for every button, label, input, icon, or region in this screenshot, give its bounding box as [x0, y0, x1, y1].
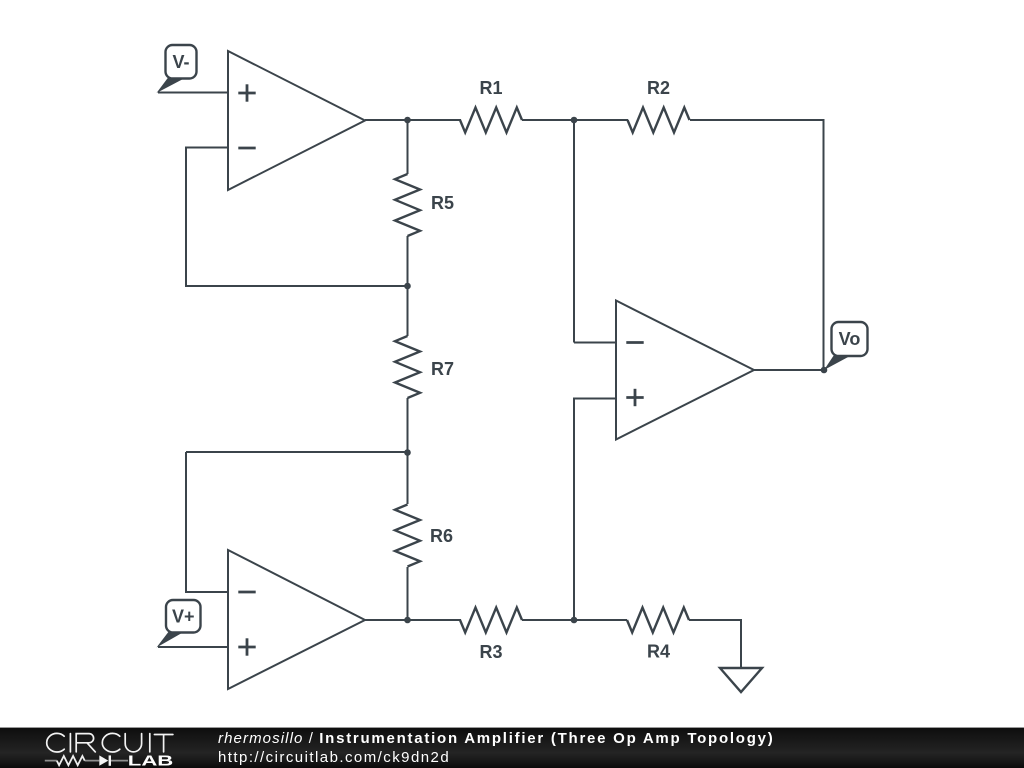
wire	[823, 119, 825, 370]
resistor R4	[627, 608, 689, 662]
svg-text:V-: V-	[172, 52, 189, 72]
op-amp OA2	[228, 550, 365, 689]
wire	[690, 119, 824, 121]
resistor R3	[460, 608, 522, 663]
wire	[186, 591, 228, 593]
node OA2 out	[404, 617, 411, 624]
node OA1 out	[404, 117, 411, 124]
wire	[754, 369, 824, 371]
node R3-R4	[571, 617, 578, 624]
wire	[185, 285, 408, 287]
wire	[574, 398, 616, 400]
svg-text:R2: R2	[647, 78, 670, 98]
wire	[574, 342, 616, 344]
wire	[522, 119, 575, 121]
wire	[574, 619, 627, 621]
svg-text:LAB: LAB	[128, 754, 174, 768]
resistor R2	[628, 78, 690, 133]
wire	[365, 619, 461, 621]
wire	[573, 398, 575, 622]
wire	[407, 398, 409, 454]
wire	[573, 119, 575, 343]
wire	[407, 285, 409, 336]
svg-text:R4: R4	[647, 642, 670, 662]
wire	[185, 147, 187, 288]
svg-text:V+: V+	[172, 606, 195, 626]
wire	[158, 646, 228, 648]
node Vo	[821, 367, 828, 374]
wire	[185, 452, 187, 593]
resistor R5	[395, 174, 454, 236]
op-amp OA3	[616, 301, 754, 440]
svg-text:R7: R7	[431, 359, 454, 379]
wire	[522, 619, 575, 621]
wire	[407, 236, 409, 287]
wire	[158, 92, 228, 94]
svg-text:R5: R5	[431, 193, 454, 213]
node V- flag	[157, 45, 197, 93]
wire	[740, 619, 742, 668]
node R5-R7	[404, 283, 411, 290]
svg-text:R3: R3	[479, 642, 502, 662]
ground	[720, 668, 762, 692]
wire	[186, 451, 408, 453]
wire	[689, 619, 741, 621]
resistor R1	[460, 78, 522, 133]
wire	[407, 119, 409, 174]
CircuitLab logo	[0, 728, 200, 768]
svg-text:R6: R6	[430, 526, 453, 546]
node R1-R2	[571, 117, 578, 124]
wire	[407, 567, 409, 621]
op-amp OA1	[228, 51, 365, 190]
svg-text:R1: R1	[479, 78, 502, 98]
node V+ flag	[157, 600, 201, 648]
wire	[407, 452, 409, 504]
wire	[186, 147, 228, 149]
footer bar	[0, 727, 1024, 768]
svg-text:Vo: Vo	[839, 329, 861, 349]
node Vo flag	[824, 322, 868, 370]
wire	[574, 119, 628, 121]
node R7-R6	[404, 449, 411, 456]
resistor R7	[395, 336, 454, 398]
wire	[365, 119, 461, 121]
resistor R6	[395, 505, 453, 567]
